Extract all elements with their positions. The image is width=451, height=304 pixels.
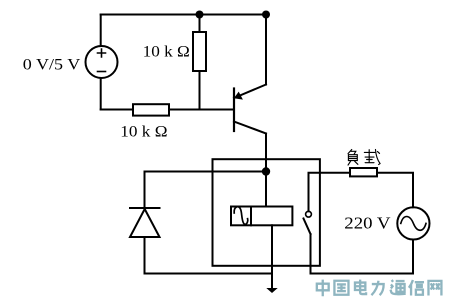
watermark char li (371, 281, 383, 295)
AC source sine wave (401, 217, 426, 231)
node junction dot top right (emitter rail) (262, 11, 270, 19)
watermark char dian (355, 280, 366, 294)
transistor Q1 emitter arrow (234, 92, 243, 100)
transistor Q1 collector diagonal (234, 122, 266, 134)
label load (fuzai) (348, 150, 380, 166)
wire collector vertical (265, 134, 267, 207)
wire switch top lead (309, 173, 351, 211)
relay coil divider (250, 207, 252, 226)
watermark char guo (334, 281, 348, 295)
V1 plus sign (98, 49, 106, 57)
load resistor RL body (350, 168, 377, 176)
AC source G1 circle (397, 207, 429, 239)
wire source top lead (100, 15, 102, 47)
wire top rail (101, 14, 266, 16)
diode D1 triangle (130, 209, 160, 237)
relay coil sine squiggle (234, 207, 248, 225)
wire load right segment (377, 173, 413, 208)
wire coil bottom lead to ground (271, 225, 273, 290)
watermark char tong (391, 280, 406, 294)
svg-text:0 V/5 V: 0 V/5 V (23, 56, 81, 73)
watermark char zhong (317, 280, 329, 297)
wire source bottom lead (100, 78, 102, 110)
diode D1 cathode bar (130, 207, 160, 209)
wire diode cathode lead (144, 172, 146, 209)
wire AC source bottom lead (412, 240, 414, 274)
switch S1 blade (304, 219, 311, 235)
wire diode top horizontal (145, 171, 267, 173)
svg-text:10 k Ω: 10 k Ω (143, 44, 190, 61)
relay K1 enclosure box (213, 159, 320, 266)
voltage source V1 circle (86, 46, 118, 78)
wire R1 bottom lead (199, 71, 201, 110)
node junction dot top (R1 tap) (196, 11, 204, 19)
relay coil box (231, 207, 292, 226)
watermark char wang (428, 281, 441, 296)
wire emitter vertical (265, 15, 267, 85)
wire base right segment (169, 109, 234, 111)
wire bottom left (diode to ground lead) (145, 273, 273, 275)
wire switch bottom lead (310, 234, 312, 274)
transistor Q1 base bar (233, 89, 235, 132)
ground symbol arrow (266, 288, 277, 293)
watermark char xin (409, 280, 424, 296)
node junction dot collector/coil/diode (262, 167, 270, 175)
svg-text:10 k Ω: 10 k Ω (120, 123, 167, 140)
wire diode anode lead (144, 237, 146, 274)
switch S1 fixed contact circle (306, 211, 312, 217)
resistor R1 10k body (vertical) (193, 32, 206, 71)
wire base left segment (101, 109, 133, 111)
transistor Q1 emitter diagonal (234, 85, 266, 99)
resistor R2 10k body (horizontal) (133, 104, 169, 115)
wire bottom right (switch to AC source) (311, 273, 414, 275)
wire R1 top lead (199, 15, 201, 33)
V1 minus sign (98, 71, 106, 73)
svg-text:220 V: 220 V (344, 214, 391, 233)
watermark China power telecom net (317, 280, 442, 297)
